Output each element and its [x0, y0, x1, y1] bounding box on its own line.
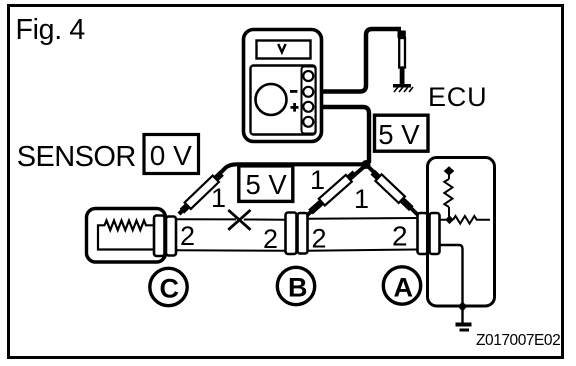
- svg-text:ECU: ECU: [428, 82, 487, 112]
- svg-text:Fig. 4: Fig. 4: [16, 14, 86, 46]
- sensor body: [87, 209, 166, 263]
- wire: multimeter plus lead down to 5V junction: [321, 107, 369, 163]
- svg-text:1: 1: [310, 165, 325, 195]
- connector B bar 1: [286, 213, 297, 255]
- minus sign: [290, 90, 297, 93]
- ground symbol (ECU): [456, 307, 472, 332]
- probe terminal on C pin1 wire: [182, 173, 222, 211]
- multimeter jack 2 (minus): [303, 87, 313, 97]
- svg-text:5 V: 5 V: [378, 119, 420, 150]
- svg-text:SENSOR: SENSOR: [17, 141, 136, 173]
- node label B (circled): [277, 267, 314, 304]
- harness wire B-A bottom: [308, 250, 417, 251]
- multimeter panel: [251, 66, 316, 135]
- connector A bar 2: [430, 213, 440, 254]
- multimeter jack column: [302, 67, 316, 134]
- svg-text:2: 2: [180, 221, 195, 251]
- harness wire C-B top: [176, 218, 285, 221]
- multimeter body: [244, 30, 322, 142]
- connector C bar 2: [166, 217, 176, 256]
- svg-text:2: 2: [392, 221, 408, 252]
- sensor internal loop wire: [98, 225, 154, 249]
- node label C (circled): [150, 268, 187, 305]
- wire: junction diagonal to connector B pin 1: [306, 164, 367, 216]
- svg-text:2: 2: [263, 224, 278, 254]
- open-circuit X mark: [228, 210, 250, 230]
- svg-text:B: B: [288, 273, 308, 303]
- svg-text:0 V: 0 V: [150, 140, 192, 171]
- wire: resistor to node: [440, 207, 454, 220]
- multimeter dial: [256, 84, 287, 115]
- voltage box 5 V (harness): [239, 166, 293, 202]
- svg-text:C: C: [160, 274, 180, 304]
- ECU body: [428, 158, 495, 307]
- node junction in ECU: [445, 215, 453, 224]
- plus sign: [291, 103, 299, 112]
- 5V supply diamond inside ECU: [444, 166, 455, 176]
- connector A bar 1: [418, 213, 428, 254]
- wire: 5V line from junction to connector C pin 1 (horizontal): [179, 164, 366, 214]
- svg-text:2: 2: [312, 224, 327, 254]
- voltage box 0 V (sensor): [144, 135, 199, 174]
- svg-text:Z017007E02: Z017007E02: [476, 332, 560, 349]
- ground symbol (probe): [393, 84, 413, 92]
- voltage box 5 V (ECU): [375, 115, 429, 151]
- test probe (to ground): [398, 31, 406, 85]
- multimeter display V: [278, 44, 285, 52]
- svg-text:5 V: 5 V: [246, 169, 288, 200]
- junction node: [362, 160, 371, 169]
- probe terminal on B pin1 wire: [311, 173, 355, 212]
- svg-text:1: 1: [354, 184, 369, 214]
- wire: multimeter minus lead to probe: [321, 29, 401, 92]
- junction at ECU bottom: [458, 302, 468, 312]
- connector B bar 2: [298, 213, 308, 254]
- resistor (sensor element): [105, 221, 155, 231]
- input resistor (horizontal zigzag): [453, 216, 490, 224]
- svg-text:1: 1: [211, 183, 226, 213]
- connector C bar 1: [154, 216, 165, 257]
- harness wire C-B bottom: [176, 249, 285, 252]
- multimeter jack 1: [303, 71, 313, 81]
- multimeter jack 4: [303, 117, 313, 127]
- node label A (circled): [383, 267, 420, 304]
- multimeter jack 3 (plus): [303, 102, 313, 112]
- wire: junction diagonal to connector A pin 1: [366, 164, 419, 215]
- probe terminal on A pin1 wire: [373, 172, 412, 209]
- svg-text:A: A: [394, 273, 414, 303]
- wire: supply to pull-up resistor: [448, 174, 450, 179]
- harness wire B-A top: [308, 217, 417, 220]
- wire: A pin2 to ECU ground: [440, 245, 463, 307]
- multimeter display window: [257, 41, 311, 59]
- pull-up resistor (vertical zigzag): [444, 179, 452, 207]
